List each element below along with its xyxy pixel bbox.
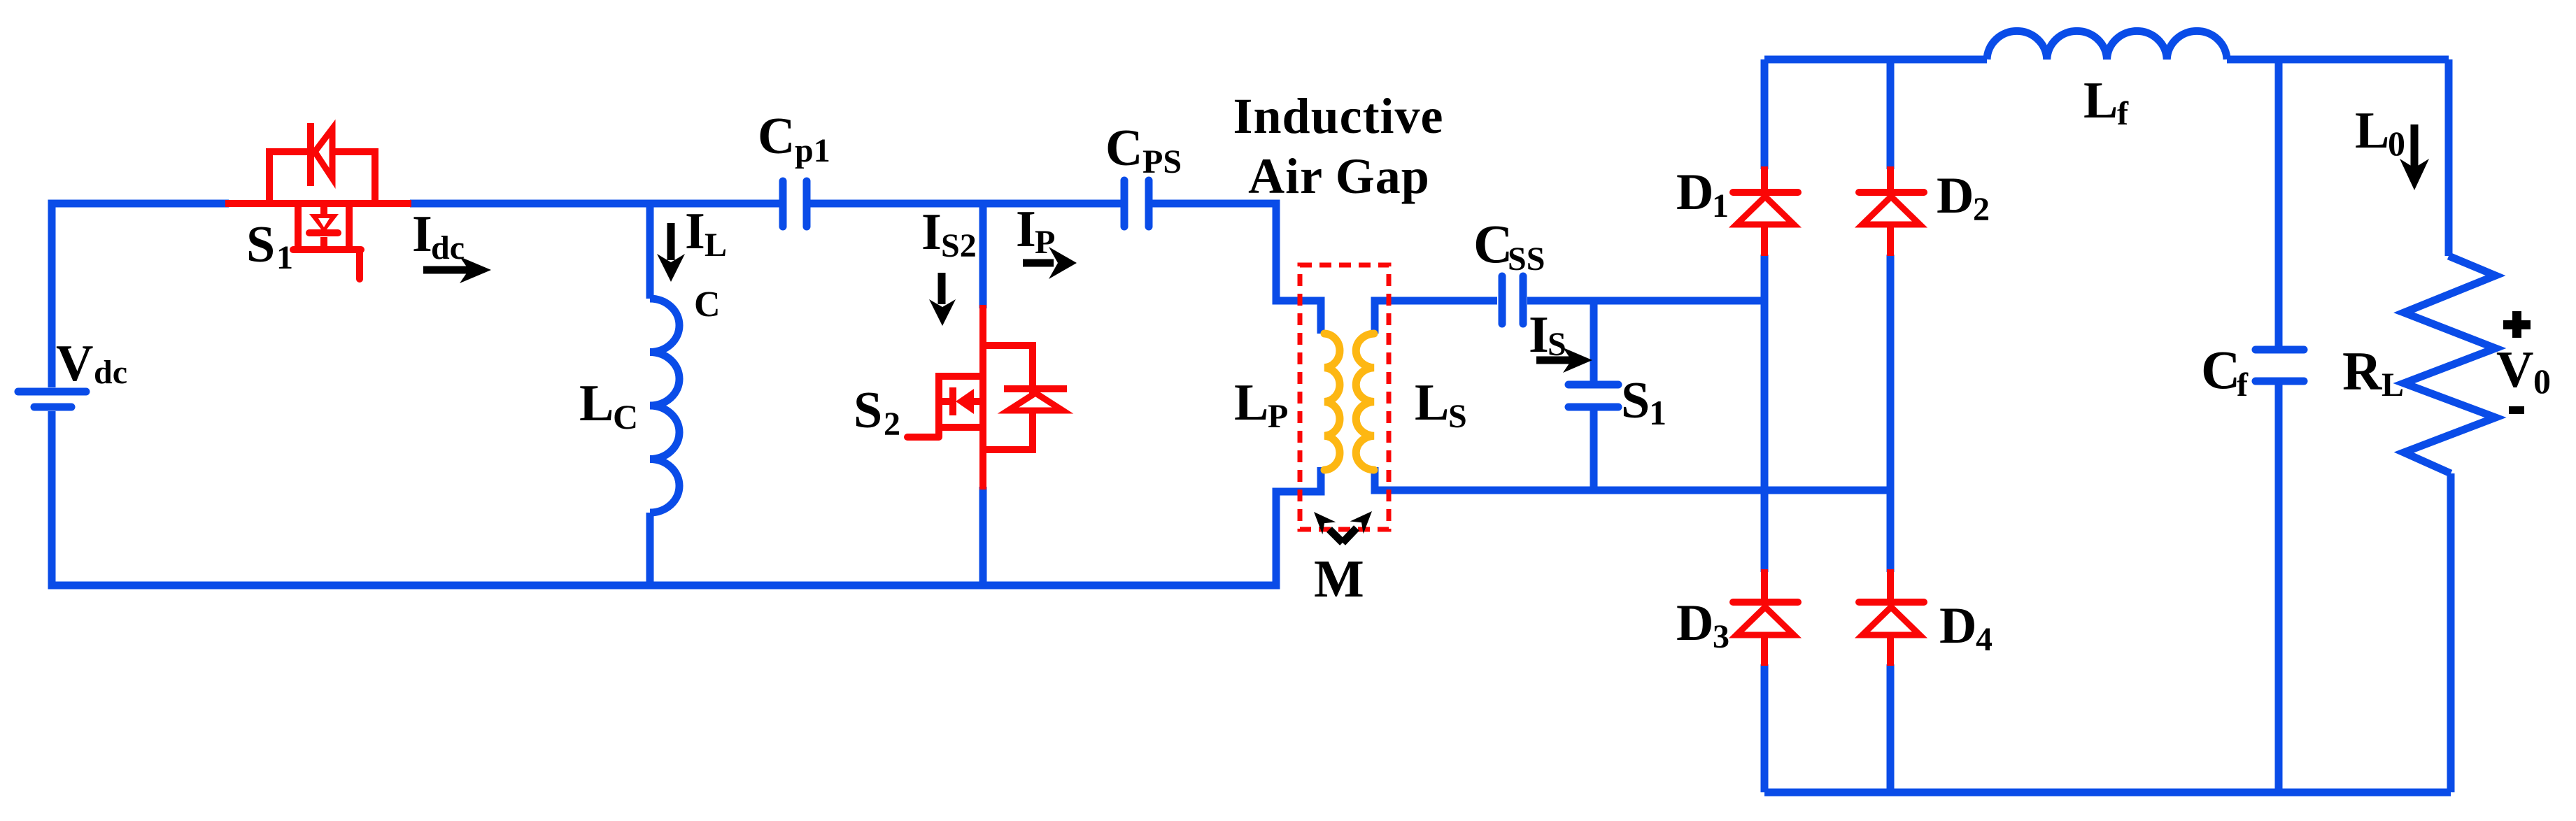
wire CSS to bridge node — [1527, 297, 1764, 305]
label minus sign — [2509, 406, 2524, 414]
diode D4 triangle — [1862, 607, 1920, 635]
svg-text:I: I — [412, 206, 432, 263]
wire LC branch top — [646, 204, 654, 299]
capacitor CPS left plate — [1121, 180, 1128, 227]
diode D2 lower stub — [1887, 224, 1894, 256]
svg-text:f: f — [2237, 366, 2249, 404]
arrow IS2 shaft — [938, 273, 946, 304]
capacitor Cf bottom plate — [2256, 378, 2304, 385]
svg-text:L: L — [2083, 72, 2118, 129]
capacitor Cf top plate — [2256, 346, 2304, 354]
diode D3 anode stub — [1761, 569, 1768, 599]
svg-text:S: S — [246, 216, 275, 273]
svg-text:S: S — [1621, 372, 1650, 429]
switch S2 diode loop — [983, 345, 1033, 450]
wire top bus Cp1 to CPS — [808, 200, 1124, 208]
arrow IL shaft — [667, 223, 675, 260]
arrow IL head — [657, 254, 685, 282]
capacitor S1 bottom plate — [1569, 404, 1618, 411]
switch S2 gate box left vertical — [935, 373, 942, 437]
resistor RL zigzag — [2404, 256, 2496, 473]
svg-text:1: 1 — [1649, 393, 1666, 432]
svg-text:S: S — [854, 382, 882, 439]
wire bridge left leg upper — [1761, 59, 1769, 169]
wire bridge left leg lower — [1761, 664, 1769, 792]
svg-text:dc: dc — [94, 354, 127, 391]
wire Cf branch bottom — [2275, 385, 2283, 792]
svg-text:0: 0 — [2388, 124, 2405, 163]
diode D4 cathode bar — [1859, 599, 1924, 606]
switch S2 diode cathode bar — [1004, 385, 1067, 392]
wire S1 capacitor branch bottom — [1590, 410, 1598, 490]
wire bridge left leg middle — [1761, 255, 1769, 572]
transformer secondary coil LS — [1356, 334, 1374, 470]
switch S2 gate box bottom — [936, 424, 983, 431]
svg-text:C: C — [613, 397, 638, 436]
switch S2 main vertical — [979, 305, 986, 490]
svg-text:R: R — [2342, 341, 2383, 401]
capacitor Cp1 left plate — [779, 181, 787, 227]
switch S1 antiparallel diode loop right — [332, 152, 375, 204]
svg-text:4: 4 — [1976, 621, 1993, 658]
svg-text:M: M — [1314, 550, 1364, 608]
svg-text:C: C — [1473, 213, 1513, 274]
svg-text:C: C — [1105, 120, 1142, 177]
switch S2 inner diode bar — [949, 387, 956, 415]
switch S2 gate lead — [907, 434, 939, 441]
switch S1 mosfet gate stub bottom — [320, 237, 327, 246]
battery Vdc short plate — [34, 404, 71, 411]
switch S2 inner diode triangle — [956, 389, 974, 414]
svg-text:L: L — [2382, 366, 2404, 404]
wire top bus left from battery to S1 — [52, 204, 229, 387]
svg-text:V: V — [2496, 341, 2533, 399]
svg-text:0: 0 — [2533, 362, 2551, 401]
diode D1 cathode bar — [1733, 189, 1798, 196]
capacitor S1 top plate — [1569, 381, 1618, 389]
diode D3 triangle — [1736, 607, 1794, 635]
svg-text:Air Gap: Air Gap — [1248, 148, 1430, 204]
svg-text:1: 1 — [1712, 187, 1729, 224]
switch S2 diode triangle — [1008, 393, 1063, 410]
arrow IS shaft — [1536, 357, 1571, 364]
svg-text:I: I — [1016, 201, 1036, 258]
switch S1 mosfet right vertical — [346, 204, 353, 246]
svg-text:I: I — [685, 203, 705, 260]
svg-text:S2: S2 — [941, 227, 977, 264]
svg-text:C: C — [2201, 339, 2240, 400]
switch S1 diode triangle — [315, 129, 332, 178]
arrow L0 head — [2400, 159, 2429, 190]
diode D2 triangle — [1862, 197, 1920, 224]
switch S2 gate box top — [936, 373, 985, 380]
diode D1 lower stub — [1761, 224, 1768, 256]
wire S2 branch top — [979, 204, 987, 308]
svg-text:P: P — [1268, 398, 1288, 435]
svg-text:PS: PS — [1142, 143, 1182, 180]
diode D3 cathode bar — [1733, 599, 1798, 606]
arrow M left arm — [1329, 529, 1343, 543]
arrow IP head — [1049, 247, 1077, 279]
svg-text:C: C — [758, 108, 795, 165]
wire RL branch bottom — [2447, 473, 2455, 792]
svg-text:p1: p1 — [795, 132, 830, 169]
wire top bus S1 to Cp1 — [410, 200, 781, 208]
wire top output rail right — [2227, 56, 2449, 64]
capacitor CSS right plate — [1520, 276, 1527, 324]
switch S2 inner diode line left — [939, 398, 949, 405]
svg-text:dc: dc — [431, 229, 465, 266]
svg-text:f: f — [2117, 95, 2129, 132]
switch S2 inner diode line right — [974, 398, 983, 405]
arrow IS2 head — [929, 299, 956, 326]
svg-text:2: 2 — [1973, 191, 1990, 228]
wire LC branch bottom — [646, 513, 654, 585]
inductor LC coil — [650, 299, 679, 513]
label plus sign — [2503, 320, 2531, 329]
svg-text:C: C — [694, 285, 721, 324]
arrow IS head — [1563, 348, 1592, 373]
svg-text:I: I — [1529, 306, 1549, 364]
svg-text:D: D — [1676, 594, 1713, 652]
wire secondary bottom to bridge — [1375, 467, 1890, 490]
switch S1 mosfet inner triangle notch — [318, 218, 330, 227]
battery Vdc long plate — [18, 388, 86, 396]
wire bridge right leg upper — [1887, 59, 1895, 169]
wire RL branch top — [2445, 59, 2453, 256]
svg-text:L: L — [1234, 374, 1268, 431]
wire battery negative to bottom bus and transformer primary bottom — [52, 411, 1321, 585]
svg-text:D: D — [1939, 597, 1976, 655]
arrow Idc shaft — [423, 266, 473, 274]
svg-text:Inductive: Inductive — [1233, 88, 1443, 144]
diode D4 anode stub — [1887, 569, 1894, 599]
svg-text:I: I — [921, 204, 942, 261]
switch S1 antiparallel diode loop left — [269, 152, 309, 204]
capacitor Cp1 right plate — [803, 181, 811, 227]
inductor Lf coil — [1987, 31, 2227, 59]
switch S1 mosfet inner bar — [309, 229, 338, 236]
arrow Idc head — [460, 257, 491, 283]
switch S1 mosfet left vertical — [295, 204, 302, 246]
switch S1 diode cathode bar — [307, 123, 314, 186]
svg-text:L: L — [579, 375, 614, 432]
wire S1 capacitor branch top — [1590, 301, 1598, 381]
svg-text:L: L — [705, 227, 727, 264]
arrow L0 shaft — [2411, 124, 2419, 169]
transformer primary coil LP — [1324, 334, 1340, 470]
wire Cf branch top — [2275, 59, 2283, 346]
diode D1 anode stub — [1761, 166, 1768, 189]
wire secondary top to CSS — [1375, 301, 1497, 334]
wire bridge right leg middle — [1887, 255, 1895, 572]
switch S1 mosfet gate stub top — [320, 204, 327, 215]
svg-text:D: D — [1676, 164, 1713, 221]
diode D3 lower stub — [1761, 635, 1768, 666]
diode D2 cathode bar — [1859, 189, 1924, 196]
svg-text:P: P — [1035, 224, 1055, 261]
wire top output rail left — [1764, 56, 1987, 64]
svg-text:V: V — [56, 335, 93, 392]
diode D4 lower stub — [1887, 635, 1894, 666]
arrow M right arm — [1343, 528, 1357, 543]
svg-text:L: L — [1415, 374, 1449, 431]
switch S1 mosfet bottom bar — [293, 246, 361, 253]
wire S2 branch bottom — [979, 487, 987, 585]
svg-text:S: S — [1448, 398, 1467, 435]
switch S1 mosfet inner triangle — [309, 214, 339, 233]
svg-text:D: D — [1937, 167, 1974, 224]
diode D2 anode stub — [1887, 166, 1894, 189]
svg-text:3: 3 — [1713, 618, 1729, 655]
wire top bus CPS to transformer primary top — [1149, 204, 1321, 334]
arrow M left head — [1307, 506, 1336, 534]
svg-text:L: L — [2355, 102, 2389, 159]
diode D1 triangle — [1736, 197, 1794, 224]
switch S1 drain lead — [356, 250, 363, 279]
svg-text:SS: SS — [1508, 241, 1545, 278]
wire bottom output rail — [1764, 789, 2451, 797]
wire bridge right leg lower — [1887, 664, 1895, 792]
arrow IP shaft — [1023, 259, 1054, 267]
svg-text:S: S — [1548, 326, 1566, 363]
capacitor CPS right plate — [1145, 180, 1153, 227]
arrow M right head — [1350, 505, 1379, 534]
svg-text:1: 1 — [276, 239, 293, 276]
svg-text:2: 2 — [884, 406, 900, 443]
transformer air gap dashed box — [1300, 265, 1389, 529]
capacitor CSS left plate — [1499, 276, 1506, 324]
switch S1 red main wire segment — [225, 200, 411, 207]
